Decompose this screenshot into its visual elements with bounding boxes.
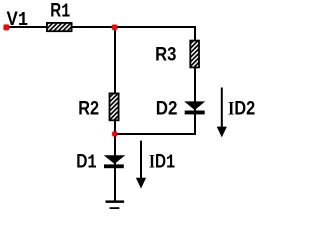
svg-text:D1: D1 [76,152,97,174]
svg-text:R2: R2 [78,99,99,120]
svg-text:D2: D2 [156,98,178,119]
svg-text:ID2: ID2 [228,98,255,119]
svg-text:R1: R1 [50,1,70,23]
svg-text:ID1: ID1 [149,152,175,174]
svg-text:V1: V1 [7,9,29,31]
svg-text:R3: R3 [155,45,176,66]
